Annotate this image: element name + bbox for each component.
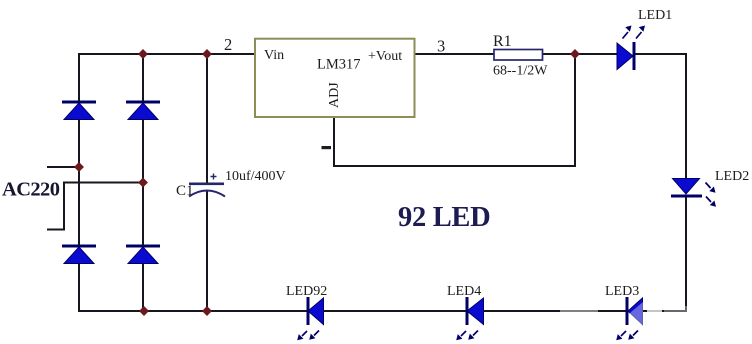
svg-text:92 LED: 92 LED xyxy=(398,202,490,233)
resistor R1 body xyxy=(494,50,543,61)
wire Vout to R1 xyxy=(414,53,494,55)
svg-text:LED4: LED4 xyxy=(447,284,481,299)
wire ADJ feedback to R1-LED1 node xyxy=(334,54,575,166)
LED3 xyxy=(616,297,642,340)
wire AC neutral terminal xyxy=(47,183,143,230)
diode bridge upper-left xyxy=(62,101,96,120)
svg-text:LED1: LED1 xyxy=(638,8,672,23)
node bottom bus C1 junction xyxy=(202,306,212,316)
wire LED2 to bottom corner to LED3 xyxy=(641,195,686,311)
wire C1 branch upper xyxy=(206,54,208,183)
diode bridge lower-left xyxy=(62,245,96,264)
svg-text:68--1/2W: 68--1/2W xyxy=(493,64,548,79)
node bottom bus bridge junction xyxy=(139,306,149,316)
wire right bridge branch xyxy=(142,54,144,311)
diode bridge lower-right xyxy=(126,245,160,264)
svg-text:LED2: LED2 xyxy=(715,169,749,184)
wire bottom bus LED4 to LED92 xyxy=(324,310,467,312)
svg-text:LED3: LED3 xyxy=(605,284,639,299)
wire R1 to LED1 xyxy=(542,53,618,55)
svg-text:LED92: LED92 xyxy=(286,284,327,299)
svg-text:C1: C1 xyxy=(176,183,194,199)
LED92 xyxy=(297,297,323,340)
svg-text:AC220: AC220 xyxy=(2,179,60,201)
watermark smudge over bottom wire xyxy=(560,302,694,325)
capacitor C1 xyxy=(189,174,225,197)
wire LED1 to right corner down to LED2 xyxy=(633,54,686,180)
LED1 xyxy=(617,26,645,71)
node top bus bridge junction xyxy=(138,49,148,59)
svg-text:10uf/400V: 10uf/400V xyxy=(225,169,286,184)
svg-text:Vin: Vin xyxy=(264,48,284,63)
wire left bridge branch xyxy=(78,53,80,312)
LED4 xyxy=(456,297,483,340)
wire top bus from bridge to Vin xyxy=(78,53,256,55)
pin number 1 rotated xyxy=(322,146,332,149)
svg-text:R1: R1 xyxy=(493,33,512,50)
wire bottom bus LED3 to LED4 xyxy=(484,310,628,312)
wire bottom bus LED92 to bridge xyxy=(78,310,308,312)
node AC neutral junction xyxy=(138,178,148,188)
svg-text:ADJ: ADJ xyxy=(327,82,342,108)
svg-text:3: 3 xyxy=(437,37,445,56)
wire C1 branch lower xyxy=(206,191,208,311)
node R1 LED1 ADJ junction xyxy=(570,49,580,59)
svg-text:LM317: LM317 xyxy=(317,57,361,73)
node AC line junction xyxy=(74,162,84,172)
LED2 xyxy=(671,179,716,207)
diode bridge upper-right xyxy=(126,101,160,120)
regulator U1 LM317 body xyxy=(255,39,415,117)
node top bus C1 junction xyxy=(202,49,212,59)
svg-text:2: 2 xyxy=(224,35,232,54)
svg-text:+Vout: +Vout xyxy=(368,49,402,64)
wire AC line terminal xyxy=(47,166,79,168)
